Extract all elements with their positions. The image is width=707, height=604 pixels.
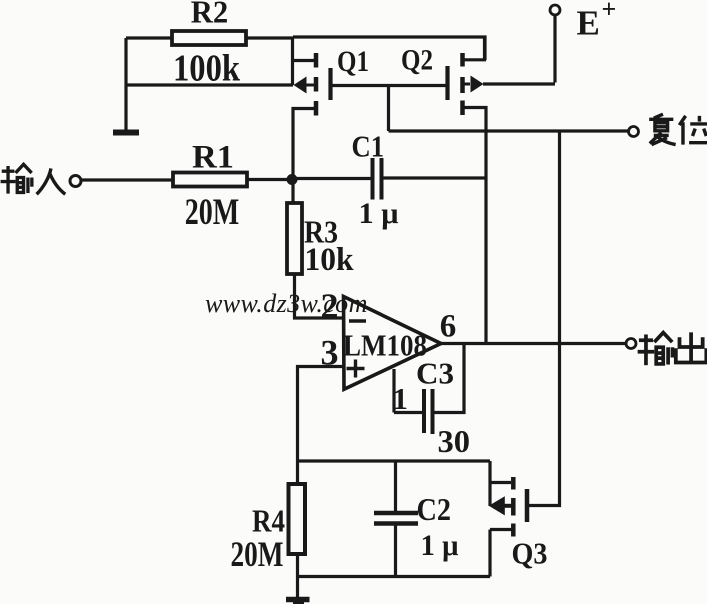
wire R3 bottom to pin2 <box>295 274 345 318</box>
wire C1 right <box>383 176 486 179</box>
svg-text:30: 30 <box>438 423 471 459</box>
wire pin1 lead <box>392 369 395 413</box>
terminal 输入 <box>1 164 32 193</box>
wire left vertical <box>124 38 127 131</box>
wire C2 bottom lead <box>394 526 397 577</box>
wire Q3 source stub <box>490 528 512 531</box>
capacitor C1 <box>371 158 375 200</box>
wire Q1 drain stub <box>293 59 315 62</box>
svg-text:1 μ: 1 μ <box>359 197 399 230</box>
terminal 输出 <box>626 339 636 349</box>
Q1 bulk arrow <box>306 84 314 87</box>
svg-text:Q3: Q3 <box>512 536 548 571</box>
resistor R2 <box>172 31 246 45</box>
wire gate line Q1-Q2 <box>331 84 448 87</box>
svg-text:Q2: Q2 <box>401 44 433 77</box>
svg-text:C1: C1 <box>352 129 385 164</box>
svg-text:20M: 20M <box>185 192 240 233</box>
svg-text:R2: R2 <box>191 0 229 30</box>
svg-text:10k: 10k <box>305 242 355 278</box>
svg-text:R1: R1 <box>192 140 234 176</box>
Q3 bulk arrow <box>504 504 512 508</box>
wire Q1 source stub <box>293 109 314 180</box>
svg-text:C2: C2 <box>417 491 452 527</box>
wire R2 right lead / top wire <box>246 36 293 39</box>
label 输出 <box>638 333 673 366</box>
label 复位 <box>649 114 675 144</box>
wire C3 left lead <box>394 411 422 414</box>
op-amp U1 LM108 <box>321 286 457 389</box>
wire R1 right lead <box>246 178 293 181</box>
wire top rail to Q2 <box>293 37 485 60</box>
wire input lead <box>81 178 172 181</box>
wire reset line <box>389 129 629 132</box>
transistor Q2 <box>331 37 556 343</box>
transistor Q3 <box>489 461 548 577</box>
wire reset branch from gates <box>387 86 390 132</box>
Q3 channel segments <box>511 477 516 490</box>
svg-text:+: + <box>602 0 617 24</box>
terminal 复位 <box>629 127 639 137</box>
svg-text:1 μ: 1 μ <box>421 529 459 562</box>
resistor R4 <box>289 484 306 554</box>
svg-text:6: 6 <box>440 309 457 345</box>
wire Q3 drain stub <box>490 481 511 484</box>
svg-text:2: 2 <box>321 286 339 326</box>
minus sign <box>349 319 366 323</box>
ground <box>286 597 310 603</box>
wire Q2 bulk to E+ <box>483 82 555 85</box>
svg-text:LM108: LM108 <box>343 328 427 363</box>
svg-text:100k: 100k <box>173 48 241 90</box>
wire Q1 drain-bulk vertical <box>291 37 294 85</box>
transistor Q1 <box>293 37 370 179</box>
wire Q2 source down <box>465 108 487 344</box>
Q2 gate bar <box>445 66 449 100</box>
wire output line <box>440 342 626 345</box>
Q3 gate bar <box>525 489 530 522</box>
wire R2 left lead <box>126 36 172 39</box>
svg-text:Q1: Q1 <box>337 45 369 78</box>
node junction dot <box>287 174 298 185</box>
Q1 gate bar <box>328 68 332 100</box>
svg-text:20M: 20M <box>231 534 284 574</box>
Q1 channel segments <box>314 53 319 68</box>
wire R3 top lead <box>291 180 294 204</box>
wire reset to Q3 gate vertical <box>529 131 560 506</box>
wire C3 right lead <box>434 344 464 413</box>
wire C2 top lead <box>394 461 397 511</box>
wire bottom top rail <box>298 459 491 462</box>
wire Q2 drain stub <box>465 37 485 60</box>
svg-text:1: 1 <box>393 381 409 416</box>
wire R4 bottom lead <box>296 554 299 577</box>
wire ground stub <box>296 577 299 598</box>
capacitor C3 <box>422 389 426 433</box>
ground bar <box>113 130 139 136</box>
wire bulk line to Q1 <box>126 83 293 86</box>
wire to C1 left <box>292 177 371 180</box>
plus sign <box>347 360 365 378</box>
terminal E+ <box>553 16 556 83</box>
resistor R1 <box>173 173 247 187</box>
resistor R3 <box>287 203 302 274</box>
svg-text:C3: C3 <box>416 356 454 391</box>
Q2 channel segments <box>460 53 465 67</box>
svg-text:E: E <box>577 4 600 43</box>
wire R4 top lead <box>296 461 299 484</box>
wire Q3 right vertical <box>488 461 491 506</box>
Q2 bulk arrow <box>465 83 471 86</box>
wire bottom bottom rail <box>298 575 491 578</box>
wire pin3 to bottom network <box>298 367 345 462</box>
capacitor C2 <box>374 511 418 516</box>
